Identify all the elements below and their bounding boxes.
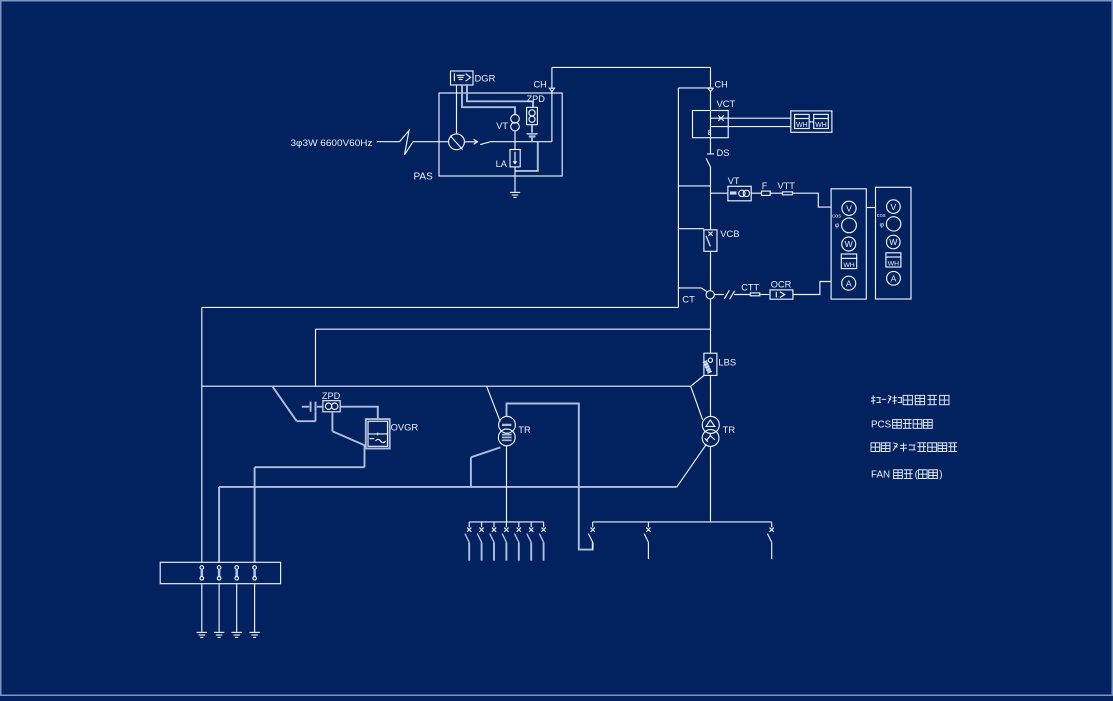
transformer VT in PAS bbox=[511, 115, 520, 124]
wire main vertical CH to VCT bbox=[710, 92, 712, 111]
wire VCB to CT bbox=[710, 251, 712, 290]
wire CH right drop bbox=[710, 67, 712, 88]
svg-text:LA: LA bbox=[496, 159, 508, 169]
wire bus C diagonal to TR right bbox=[691, 386, 703, 420]
svg-text:CTT: CTT bbox=[741, 283, 759, 293]
breaker VCB bbox=[704, 230, 717, 252]
label FAN kosho ikkatsu bbox=[871, 470, 942, 481]
wire ground lead 2 bbox=[218, 584, 220, 633]
wire PAS main line to CH bbox=[490, 141, 552, 143]
metering transformer VCT box bbox=[693, 111, 729, 138]
svg-text:W: W bbox=[845, 239, 854, 249]
breaker L1 bbox=[468, 522, 470, 527]
svg-text:3φ3W 6600V60Hz: 3φ3W 6600V60Hz bbox=[291, 137, 373, 148]
wire CH left drop bbox=[551, 67, 553, 88]
wire bypass to VCB bbox=[678, 228, 704, 230]
ground earth 4 bbox=[249, 631, 259, 633]
breaker L7 bbox=[543, 522, 545, 527]
node double slash marks bbox=[724, 290, 729, 299]
svg-text:LBS: LBS bbox=[718, 356, 736, 367]
wire ground lead 4 bbox=[254, 584, 256, 633]
relay DGR bbox=[451, 71, 474, 85]
wire CH overhead link bbox=[552, 66, 711, 68]
transformer TR left bbox=[499, 416, 516, 433]
switch DS disconnector bbox=[707, 153, 714, 155]
panel meter set 1 bbox=[831, 189, 866, 299]
svg-text:φ: φ bbox=[835, 222, 840, 229]
wire ground lead 1 bbox=[201, 584, 203, 633]
wire LA to ground bbox=[514, 167, 516, 193]
svg-text:FAN: FAN bbox=[871, 470, 890, 481]
transformer TR right bbox=[702, 416, 719, 433]
wire DGR to switch bbox=[456, 85, 458, 134]
svg-text:WH: WH bbox=[843, 262, 854, 269]
svg-text:DS: DS bbox=[717, 147, 730, 158]
wire LBS to TR right bbox=[710, 375, 712, 416]
wire TR right primary down bbox=[710, 446, 712, 522]
wire TR left primary down bbox=[506, 446, 508, 522]
device ZPD in PAS bbox=[527, 107, 538, 124]
wire VCT CT branch to WH bbox=[711, 117, 791, 119]
breaker R2 bbox=[647, 522, 649, 527]
transformer VT metering bbox=[728, 186, 751, 201]
svg-text:ZPD: ZPD bbox=[527, 94, 546, 104]
wire junction branch to bypass bbox=[678, 185, 710, 187]
svg-text:VT: VT bbox=[728, 176, 740, 186]
svg-text:F: F bbox=[762, 181, 768, 191]
wire ground lead 3 bbox=[236, 584, 238, 633]
wire panel link bbox=[866, 207, 875, 209]
wire zigzag break symbol bbox=[400, 131, 449, 155]
wire TR right secondary diagonal bbox=[677, 444, 707, 487]
terminal VTT bbox=[782, 192, 792, 195]
svg-text:VCT: VCT bbox=[717, 98, 736, 109]
wire CT to LBS main bbox=[710, 299, 712, 353]
wire bus C diagonal to TR left bbox=[487, 386, 501, 422]
label kanshi camera sogo kosho bbox=[871, 443, 957, 452]
switch PAS air switch circle bbox=[449, 134, 465, 150]
wire service entrance lead bbox=[377, 141, 400, 143]
bus right breaker group bbox=[593, 521, 772, 523]
wire DS to VT branch junction bbox=[710, 167, 712, 230]
breaker L5 bbox=[518, 522, 520, 527]
svg-text:cos: cos bbox=[832, 213, 841, 219]
svg-text:OCR: OCR bbox=[771, 280, 792, 290]
breaker R1 bbox=[592, 522, 594, 527]
wire VT to main line bbox=[514, 131, 516, 142]
svg-text:cos: cos bbox=[877, 213, 886, 219]
wire switch arrow contact bbox=[464, 141, 476, 143]
switch blade PAS bbox=[480, 142, 490, 145]
wire line B drop to bus bbox=[315, 329, 317, 386]
relay OCR bbox=[770, 290, 793, 299]
wire DGR to VT bbox=[462, 85, 515, 115]
node CH right arrow bbox=[708, 88, 713, 92]
wire VCT VT branch to WH bbox=[711, 126, 791, 128]
relay OVGR bbox=[366, 419, 390, 448]
wire OCR to meter panel bbox=[793, 282, 831, 295]
wire bus D left drop bbox=[218, 487, 220, 562]
panel meter set 2 bbox=[876, 187, 912, 299]
terminal T2 bbox=[217, 566, 221, 570]
wire line A horizontal bbox=[202, 306, 679, 308]
wire VT branch bbox=[711, 192, 728, 194]
wire CTT to OCR bbox=[760, 294, 770, 296]
bus left breaker group bbox=[469, 521, 543, 523]
wire ZPD2 diagonal from bus bbox=[273, 387, 297, 421]
svg-text:ε: ε bbox=[708, 127, 712, 137]
terminal T4 bbox=[253, 566, 257, 570]
svg-text:WH: WH bbox=[815, 122, 827, 129]
wire DGR to ZPD bbox=[467, 85, 533, 107]
svg-text:DGR: DGR bbox=[475, 73, 496, 84]
svg-text:CH: CH bbox=[534, 79, 547, 89]
svg-text:A: A bbox=[891, 274, 897, 284]
svg-text:VT: VT bbox=[496, 121, 508, 131]
wire CH left into PAS bbox=[551, 92, 553, 142]
ground earth 2 bbox=[214, 631, 224, 633]
enclosure PAS box bbox=[439, 93, 562, 176]
node CH left arrow bbox=[549, 88, 554, 92]
wire line B horizontal bbox=[316, 328, 711, 330]
terminal T1 bbox=[200, 566, 204, 570]
meter WH pair box bbox=[791, 111, 832, 132]
breaker R3 bbox=[771, 522, 773, 527]
wire main vertical through VCT bbox=[710, 111, 712, 154]
svg-text:): ) bbox=[939, 470, 942, 481]
label PCS kosho ikkatsu bbox=[871, 419, 932, 430]
arrester LA bbox=[514, 142, 516, 150]
wire bypass to CT branch bbox=[678, 287, 701, 289]
label kyubikuru-nai shadanki bbox=[871, 395, 949, 404]
capacitor ZPD coupling bbox=[531, 125, 533, 133]
fuse F bbox=[762, 191, 771, 195]
wire VT to fuse bbox=[751, 192, 761, 194]
ground earth 1 bbox=[197, 631, 207, 633]
svg-text:WH: WH bbox=[796, 122, 808, 129]
wire bus D horizontal bbox=[219, 486, 677, 488]
device ZPD2 box bbox=[323, 401, 340, 412]
current transformer CT bbox=[706, 291, 714, 299]
wire bus C horizontal bbox=[202, 385, 691, 387]
wire left riser vertical bbox=[201, 307, 203, 562]
wire ZPD2 to OVGR bbox=[340, 407, 378, 419]
switch LBS bbox=[691, 376, 704, 387]
breaker L2 bbox=[481, 522, 483, 527]
svg-text:φ: φ bbox=[880, 222, 885, 229]
wire fuse to VTT bbox=[770, 192, 782, 194]
svg-text:CT: CT bbox=[682, 293, 695, 304]
capacitor ZPD2 plates bbox=[310, 402, 312, 412]
breaker L6 bbox=[530, 522, 532, 527]
wire bypass branch at CH bbox=[678, 87, 710, 89]
svg-text:WH: WH bbox=[888, 260, 899, 267]
breaker L3 bbox=[493, 522, 495, 527]
terminal box earth block bbox=[160, 562, 280, 583]
svg-text:W: W bbox=[889, 237, 898, 247]
node VCT CT cross symbol bbox=[718, 115, 724, 121]
wire TR left top loop bbox=[507, 404, 593, 550]
svg-text:PAS: PAS bbox=[414, 172, 434, 183]
ground PAS earth bbox=[510, 191, 520, 193]
svg-text:V: V bbox=[891, 202, 897, 212]
svg-text:VCB: VCB bbox=[720, 228, 739, 239]
svg-text:ZPD: ZPD bbox=[322, 391, 341, 401]
wire TR left secondary diagonal bbox=[471, 447, 501, 457]
terminal T3 bbox=[235, 566, 239, 570]
svg-text:A: A bbox=[846, 278, 852, 288]
svg-text:CH: CH bbox=[715, 79, 728, 89]
svg-text:V: V bbox=[846, 204, 852, 214]
ground earth 3 bbox=[232, 631, 242, 633]
svg-text:TR: TR bbox=[518, 424, 531, 435]
wire bypass vertical bbox=[677, 88, 679, 308]
breaker L4 bbox=[505, 522, 507, 527]
svg-text:VTT: VTT bbox=[778, 181, 796, 191]
wire LA bottom loop bbox=[515, 142, 538, 171]
terminal CTT bbox=[750, 293, 759, 296]
wire ZPD2 bottom chain bbox=[331, 412, 333, 432]
svg-text:PCS: PCS bbox=[871, 419, 892, 430]
svg-text:TR: TR bbox=[723, 424, 736, 435]
svg-text:OVGR: OVGR bbox=[391, 422, 419, 433]
wire CT secondary bbox=[714, 294, 724, 296]
wire VTT to meter panel bbox=[793, 193, 832, 207]
